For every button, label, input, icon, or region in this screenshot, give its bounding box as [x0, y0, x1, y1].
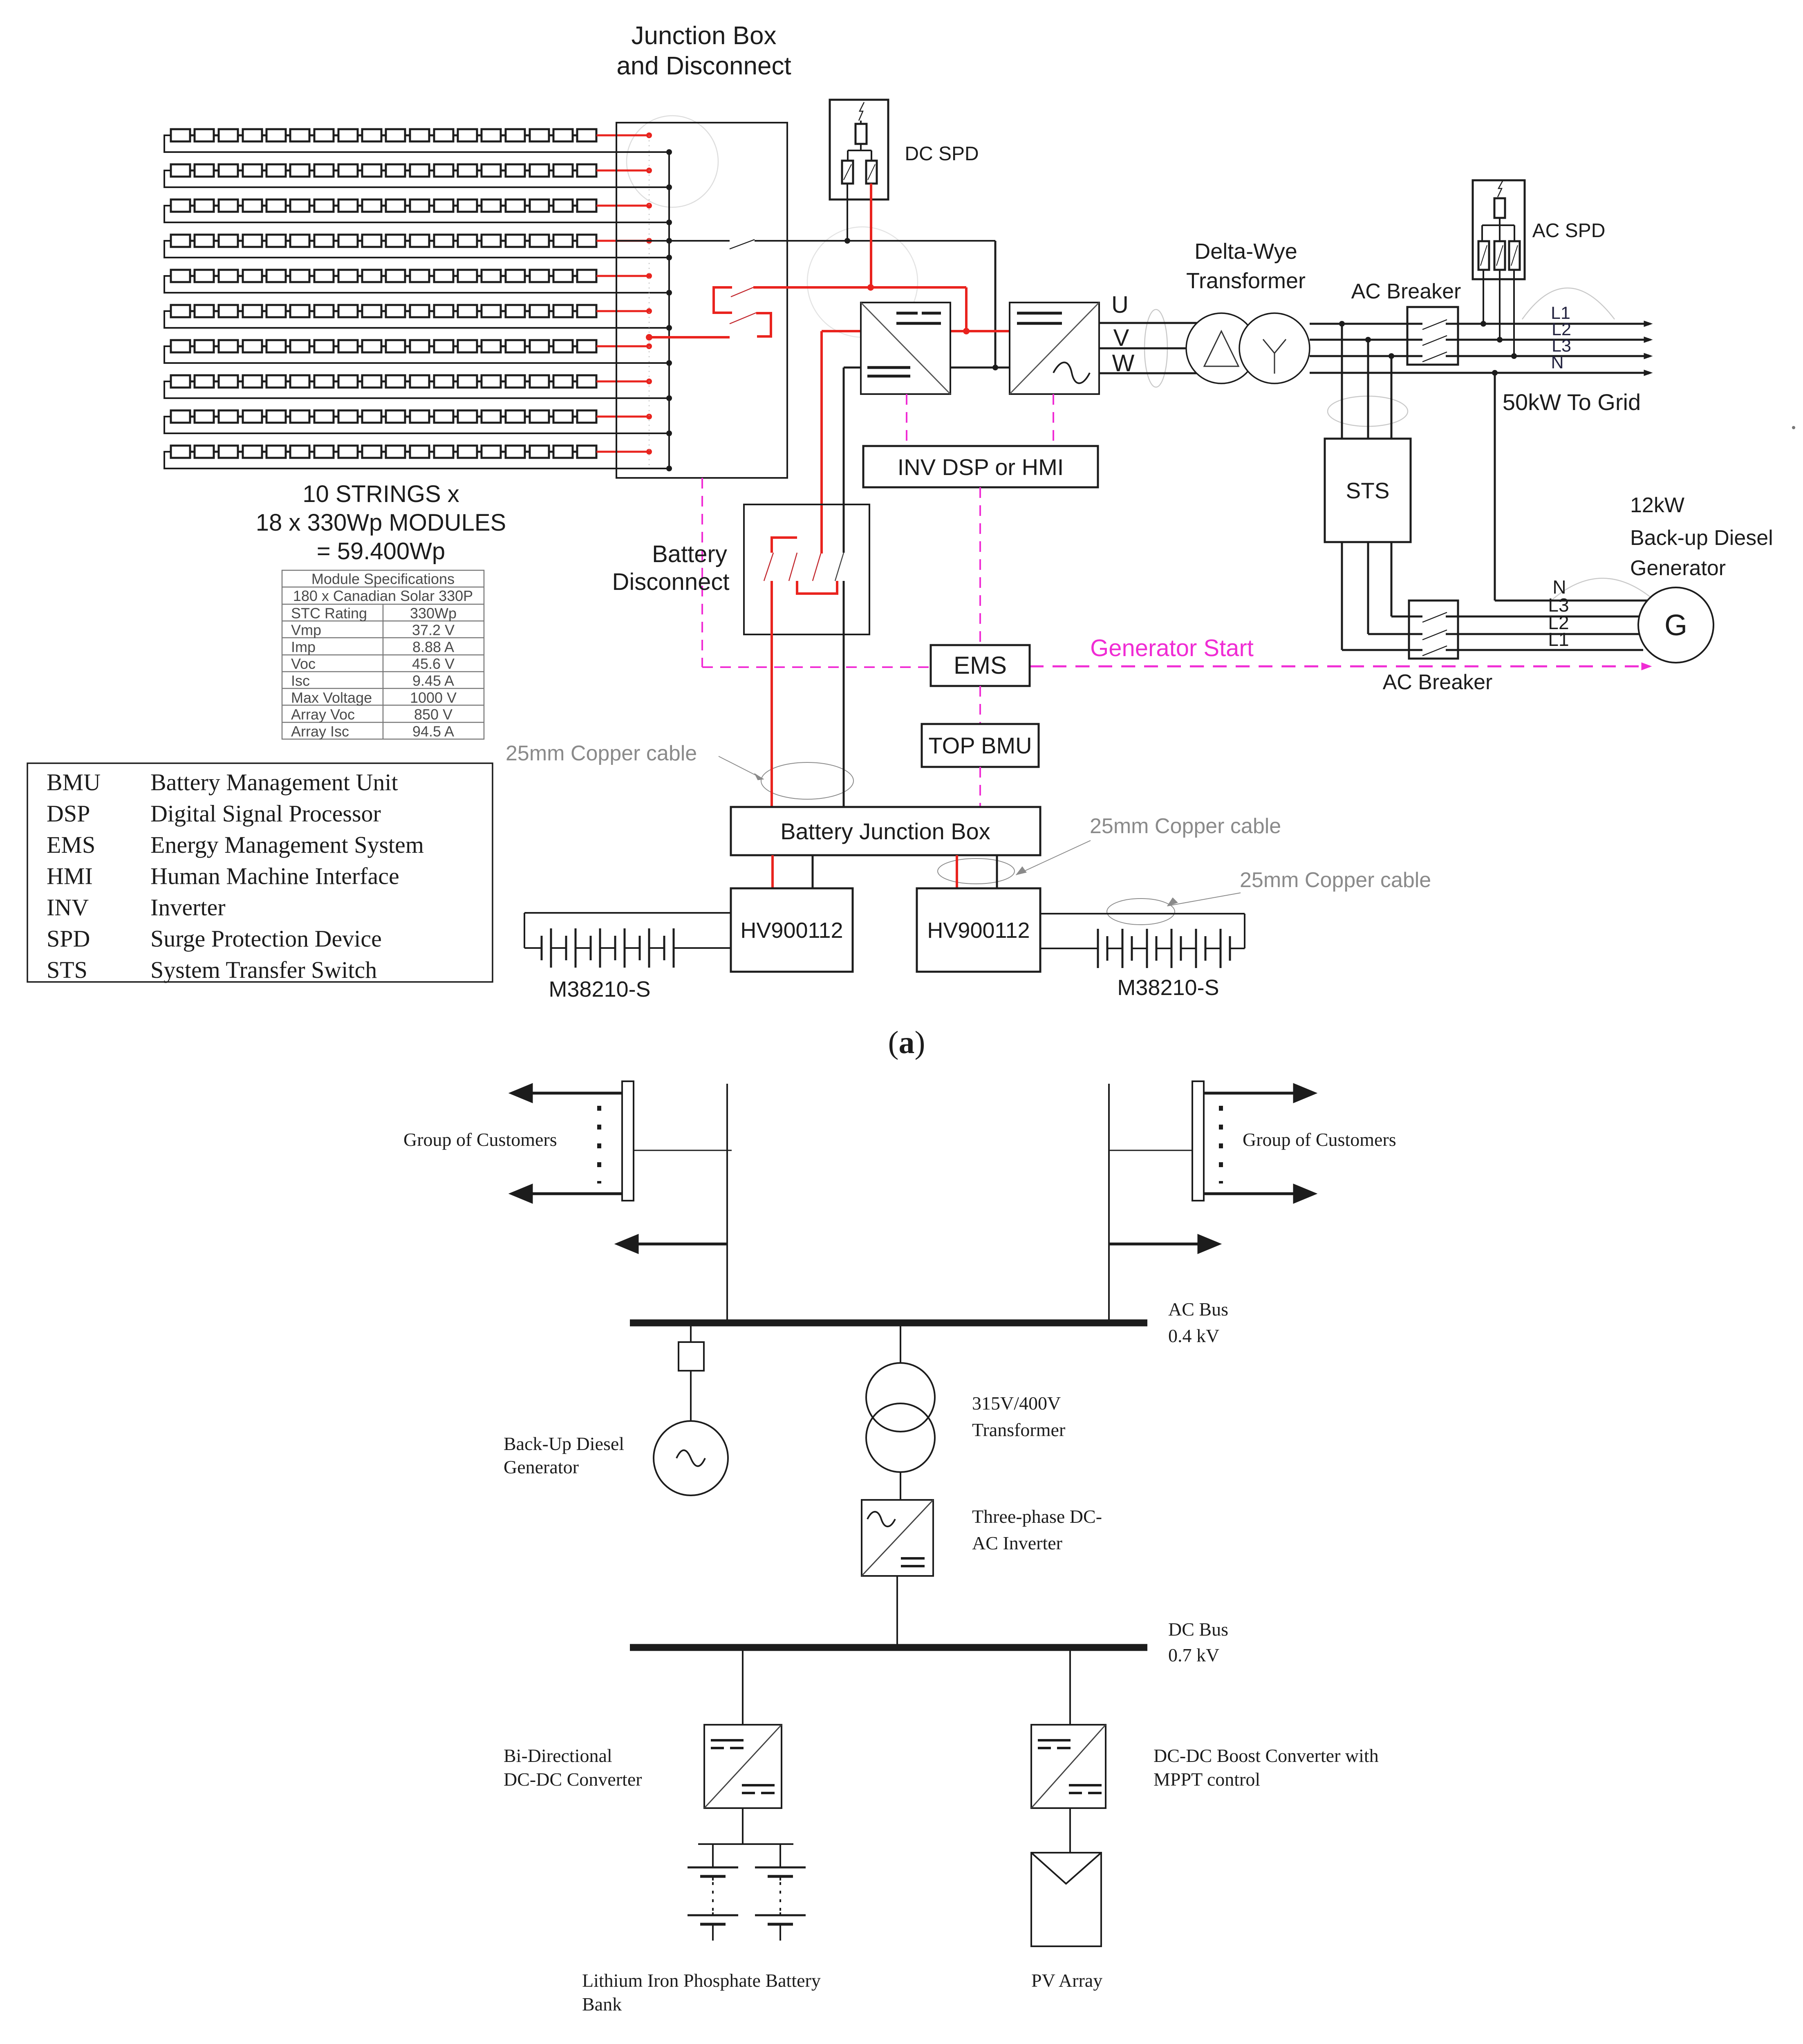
- svg-text:HMI: HMI: [47, 863, 93, 890]
- svg-text:Array Isc: Array Isc: [291, 723, 349, 740]
- svg-text:Group of Customers: Group of Customers: [403, 1129, 557, 1150]
- svg-text:Vmp: Vmp: [291, 622, 321, 639]
- svg-text:94.5 A: 94.5 A: [412, 723, 454, 740]
- svg-text:HV900112: HV900112: [927, 918, 1030, 943]
- svg-text:Surge Protection Device: Surge Protection Device: [150, 926, 382, 952]
- svg-text:Voc: Voc: [291, 655, 316, 672]
- svg-text:INV: INV: [47, 894, 89, 921]
- svg-text:25mm Copper cable: 25mm Copper cable: [1090, 814, 1281, 838]
- svg-text:STS: STS: [47, 957, 87, 983]
- svg-text:Lithium Iron Phosphate Battery: Lithium Iron Phosphate Battery: [582, 1970, 821, 1991]
- svg-text:10 STRINGS x: 10 STRINGS x: [302, 481, 459, 507]
- svg-text:Imp: Imp: [291, 639, 316, 655]
- svg-text:1000 V: 1000 V: [410, 689, 457, 706]
- svg-text:AC Inverter: AC Inverter: [972, 1533, 1062, 1553]
- svg-text:Group of Customers: Group of Customers: [1243, 1129, 1396, 1150]
- svg-text:Battery Management Unit: Battery Management Unit: [150, 769, 398, 796]
- svg-text:9.45 A: 9.45 A: [412, 672, 454, 689]
- svg-text:Disconnect: Disconnect: [612, 569, 730, 595]
- svg-text:45.6 V: 45.6 V: [412, 655, 455, 672]
- svg-text:AC Breaker: AC Breaker: [1383, 670, 1493, 694]
- svg-text:Transformer: Transformer: [1186, 269, 1306, 293]
- svg-text:Three-phase DC-: Three-phase DC-: [972, 1506, 1102, 1527]
- svg-text:Back-Up Diesel: Back-Up Diesel: [504, 1433, 624, 1454]
- svg-text:EMS: EMS: [47, 831, 95, 858]
- svg-text:Isc: Isc: [291, 672, 310, 689]
- svg-text:DC Bus: DC Bus: [1168, 1619, 1228, 1640]
- svg-text:L1: L1: [1548, 629, 1569, 650]
- svg-text:Generator Start: Generator Start: [1090, 635, 1254, 661]
- svg-text:37.2 V: 37.2 V: [412, 622, 455, 639]
- svg-text:M38210-S: M38210-S: [549, 977, 650, 1002]
- svg-text:DSP: DSP: [47, 800, 90, 827]
- svg-text:850 V: 850 V: [414, 706, 452, 723]
- svg-text:Delta-Wye: Delta-Wye: [1194, 239, 1297, 264]
- svg-text:Generator: Generator: [504, 1457, 579, 1477]
- svg-text:Generator: Generator: [1630, 556, 1726, 580]
- svg-text:M38210-S: M38210-S: [1117, 975, 1219, 1000]
- svg-text:330Wp: 330Wp: [410, 605, 457, 621]
- svg-text:12kW: 12kW: [1630, 493, 1684, 517]
- svg-text:AC SPD: AC SPD: [1532, 220, 1606, 242]
- svg-text:Module Specifications: Module Specifications: [311, 571, 455, 587]
- svg-text:18 x 330Wp MODULES: 18 x 330Wp MODULES: [256, 509, 506, 536]
- svg-text:(a): (a): [888, 1024, 925, 1060]
- svg-text:TOP BMU: TOP BMU: [928, 733, 1032, 758]
- svg-text:DC SPD: DC SPD: [905, 143, 979, 165]
- svg-text:DC-DC Boost Converter with: DC-DC Boost Converter with: [1153, 1745, 1379, 1766]
- svg-text:Bi-Directional: Bi-Directional: [504, 1745, 612, 1766]
- svg-text:Max Voltage: Max Voltage: [291, 689, 372, 706]
- svg-text:V: V: [1113, 325, 1129, 351]
- svg-text:HV900112: HV900112: [740, 918, 843, 943]
- svg-text:STC Rating: STC Rating: [291, 605, 367, 621]
- svg-text:0.4 kV: 0.4 kV: [1168, 1325, 1219, 1346]
- svg-text:W: W: [1112, 350, 1135, 377]
- svg-text:EMS: EMS: [954, 652, 1007, 679]
- svg-text:25mm Copper cable: 25mm Copper cable: [1240, 868, 1431, 892]
- svg-text:STS: STS: [1346, 478, 1390, 503]
- svg-text:25mm Copper cable: 25mm Copper cable: [506, 742, 697, 765]
- svg-text:MPPT control: MPPT control: [1153, 1769, 1260, 1790]
- svg-text:AC Breaker: AC Breaker: [1351, 280, 1461, 303]
- svg-text:8.88 A: 8.88 A: [412, 639, 454, 655]
- svg-text:DC-DC Converter: DC-DC Converter: [504, 1769, 642, 1790]
- svg-text:and Disconnect: and Disconnect: [616, 52, 791, 80]
- svg-text:Energy Management System: Energy Management System: [150, 831, 424, 858]
- svg-text:Digital Signal Processor: Digital Signal Processor: [150, 800, 381, 827]
- svg-text:Junction Box: Junction Box: [632, 22, 777, 50]
- svg-text:50kW To Grid: 50kW To Grid: [1503, 389, 1641, 415]
- svg-text:Battery Junction Box: Battery Junction Box: [780, 818, 990, 844]
- svg-text:AC Bus: AC Bus: [1168, 1299, 1228, 1320]
- svg-text:315V/400V: 315V/400V: [972, 1393, 1061, 1414]
- svg-text:Transformer: Transformer: [972, 1419, 1065, 1440]
- svg-text:180 x Canadian Solar 330P: 180 x Canadian Solar 330P: [293, 587, 473, 604]
- svg-text:U: U: [1111, 291, 1129, 318]
- svg-text:Human Machine Interface: Human Machine Interface: [150, 863, 399, 890]
- svg-text:(b): (b): [888, 2042, 927, 2044]
- svg-text:= 59.400Wp: = 59.400Wp: [317, 538, 445, 565]
- svg-text:N: N: [1551, 353, 1563, 372]
- svg-text:Array Voc: Array Voc: [291, 706, 355, 723]
- svg-text:BMU: BMU: [47, 769, 101, 796]
- svg-text:0.7 kV: 0.7 kV: [1168, 1645, 1219, 1665]
- svg-text:SPD: SPD: [47, 926, 90, 952]
- svg-text:Bank: Bank: [582, 1994, 622, 2015]
- svg-text:G: G: [1664, 609, 1687, 642]
- svg-text:System Transfer Switch: System Transfer Switch: [150, 957, 377, 983]
- svg-text:Back-up Diesel: Back-up Diesel: [1630, 526, 1773, 550]
- svg-text:INV DSP or HMI: INV DSP or HMI: [898, 454, 1064, 480]
- svg-text:Battery: Battery: [652, 541, 727, 567]
- svg-text:PV Array: PV Array: [1031, 1970, 1102, 1991]
- svg-text:Inverter: Inverter: [150, 894, 226, 921]
